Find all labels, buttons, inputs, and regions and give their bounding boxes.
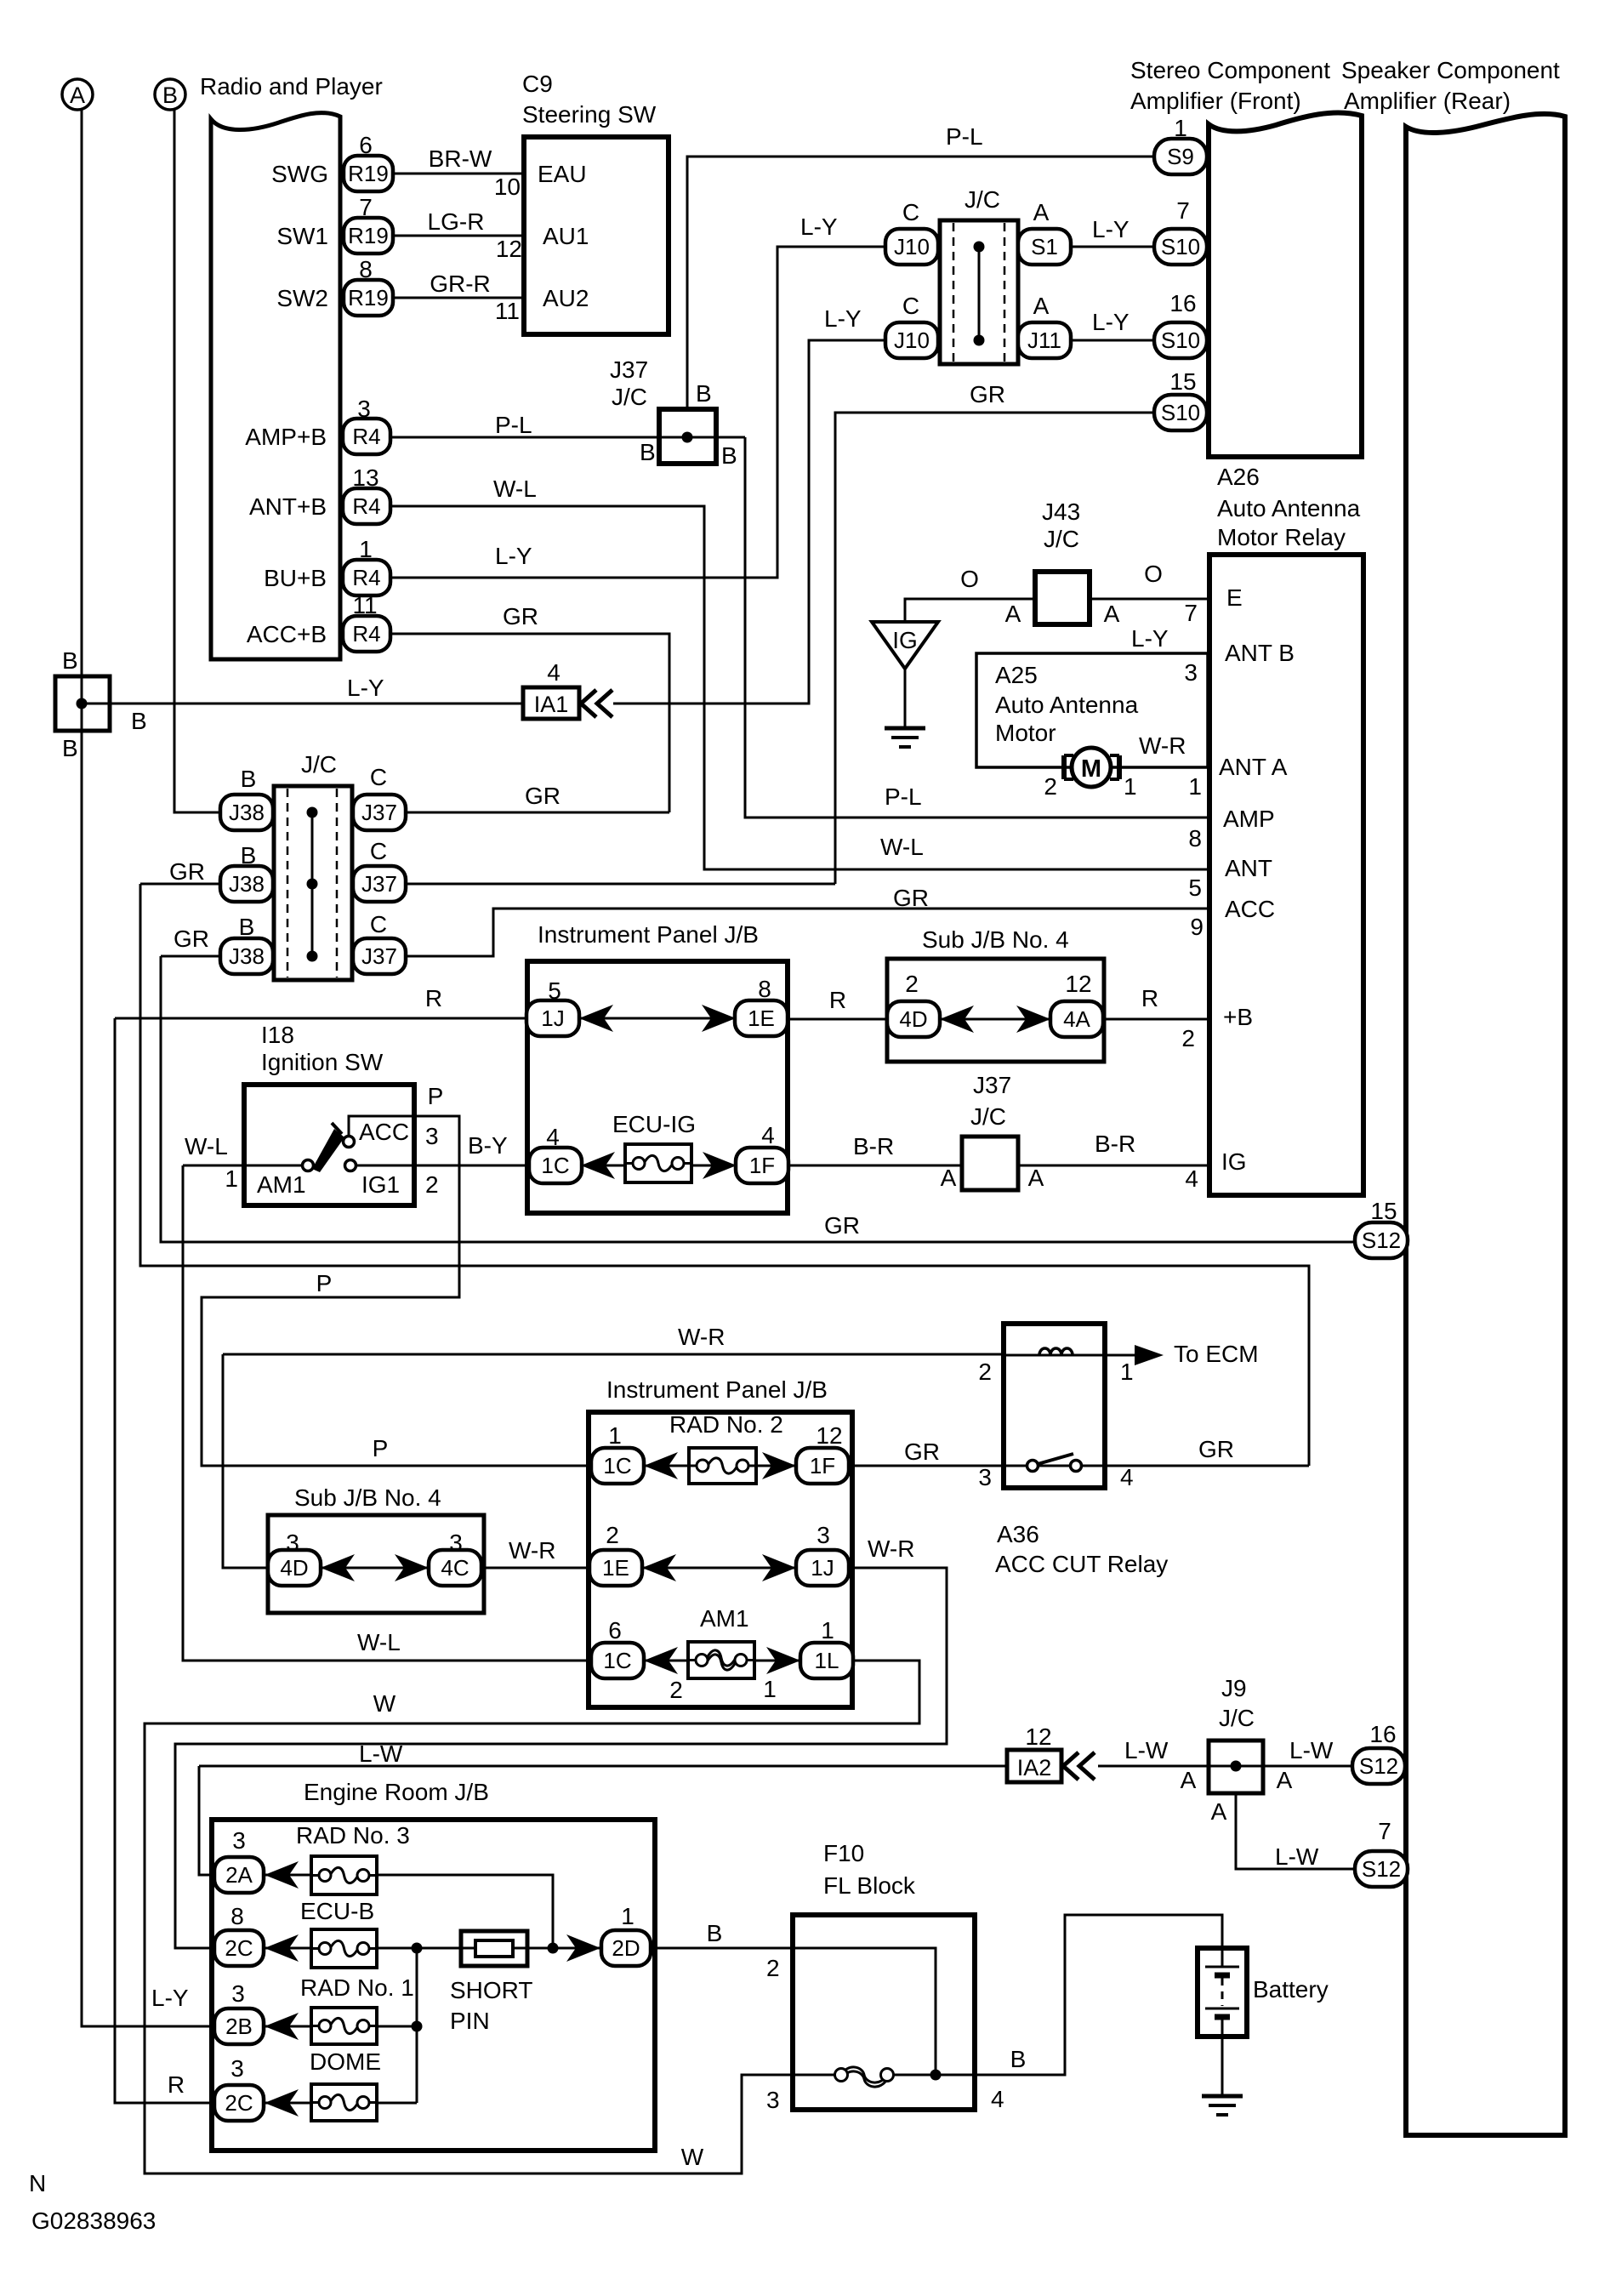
svg-text:A36: A36 bbox=[997, 1521, 1039, 1547]
svg-text:To ECM: To ECM bbox=[1174, 1341, 1259, 1367]
svg-text:Sub J/B No. 4: Sub J/B No. 4 bbox=[294, 1484, 441, 1511]
fuse RAD No. 1 bbox=[311, 2008, 377, 2044]
svg-text:1: 1 bbox=[763, 1676, 777, 1702]
connector terminal R4 pin 3 AMP+B bbox=[343, 419, 390, 454]
svg-text:B: B bbox=[239, 914, 255, 940]
wire W-L to AM1 contact bbox=[183, 1165, 303, 1167]
svg-text:GR: GR bbox=[970, 381, 1005, 407]
wire GR J38 row2 stub bbox=[140, 883, 220, 886]
svg-text:8: 8 bbox=[359, 256, 373, 282]
svg-text:6: 6 bbox=[359, 132, 373, 158]
wire B 2D to F10 internal bbox=[652, 1948, 936, 2075]
wire wire fuse junction vertical bbox=[416, 1948, 418, 2103]
svg-text:5: 5 bbox=[1188, 875, 1202, 901]
svg-text:E: E bbox=[1226, 584, 1243, 611]
wire L-W IA2 to J9 bbox=[1098, 1765, 1209, 1768]
wire W-R motor to A26 ANT A pin 1 bbox=[1119, 766, 1209, 769]
svg-text:A25: A25 bbox=[995, 662, 1038, 688]
svg-text:A: A bbox=[70, 83, 85, 108]
svg-text:RAD No. 3: RAD No. 3 bbox=[296, 1822, 410, 1849]
connector terminal S10 pin 7 bbox=[1154, 229, 1207, 265]
svg-text:S12: S12 bbox=[1362, 1856, 1401, 1882]
svg-text:GR-R: GR-R bbox=[430, 271, 491, 297]
wire wire inside Sub J/B lower bbox=[322, 1567, 428, 1570]
svg-text:ACC CUT Relay: ACC CUT Relay bbox=[995, 1551, 1168, 1577]
svg-text:8: 8 bbox=[230, 1903, 244, 1929]
svg-text:ACC+B: ACC+B bbox=[247, 621, 327, 647]
svg-text:L-W: L-W bbox=[1289, 1737, 1334, 1763]
svg-text:2: 2 bbox=[425, 1171, 439, 1198]
svg-text:Instrument Panel J/B: Instrument Panel J/B bbox=[606, 1376, 828, 1403]
wire L-W J9 to S12 pin 7 bbox=[1236, 1793, 1355, 1869]
connector terminal 2C pin 8 bbox=[214, 1930, 264, 1966]
svg-text:4A: 4A bbox=[1063, 1006, 1090, 1032]
connector terminal 1E pin 2 bbox=[589, 1550, 642, 1586]
svg-text:R4: R4 bbox=[352, 621, 380, 647]
svg-text:AM1: AM1 bbox=[257, 1171, 306, 1198]
connector terminal 4D pin 3 bbox=[268, 1550, 321, 1586]
svg-text:1: 1 bbox=[821, 1617, 834, 1644]
svg-text:GR: GR bbox=[169, 858, 205, 885]
arrow into 2D bbox=[566, 1934, 600, 1962]
fuse AM1 bbox=[688, 1642, 754, 1678]
component box Engine Room J/B bbox=[212, 1820, 655, 2151]
svg-text:Sub J/B No. 4: Sub J/B No. 4 bbox=[922, 926, 1069, 953]
arrow into 1C ECU-IG bbox=[581, 1152, 615, 1179]
wire L-Y A25 to A26 ANT B pin 3 bbox=[1195, 652, 1209, 655]
component box A26 Auto Antenna Motor Relay bbox=[1209, 555, 1363, 1195]
svg-text:J/C: J/C bbox=[612, 384, 647, 410]
wire W-R 4C to 1E bbox=[481, 1567, 589, 1570]
wire B F10 pin 4 to battery bbox=[893, 1915, 1222, 2075]
connector terminal J38 row3 bbox=[220, 938, 273, 974]
arrow into 4A bbox=[1016, 1006, 1050, 1033]
svg-text:7: 7 bbox=[359, 194, 373, 220]
svg-text:ACC: ACC bbox=[359, 1119, 409, 1145]
switch contact IG1 bbox=[345, 1160, 356, 1171]
svg-text:1E: 1E bbox=[602, 1555, 629, 1581]
junction dot ECU-B row bbox=[412, 1943, 423, 1954]
junction dot RAD No.1 row bbox=[412, 2021, 423, 2032]
wire R 1E to 4D bbox=[788, 1018, 887, 1021]
connector terminal S9 pin 1 bbox=[1154, 139, 1207, 174]
svg-text:A: A bbox=[1181, 1767, 1197, 1793]
connector circle A bbox=[62, 79, 93, 110]
svg-text:Engine Room J/B: Engine Room J/B bbox=[304, 1779, 489, 1805]
component box F10 FL Block bbox=[793, 1915, 975, 2110]
svg-text:J/C: J/C bbox=[970, 1103, 1006, 1130]
arrow into 1C AM1 bbox=[644, 1647, 678, 1674]
connector terminal J37 row3 bbox=[353, 938, 406, 974]
svg-text:5: 5 bbox=[548, 977, 561, 1004]
svg-text:SWG: SWG bbox=[271, 161, 328, 187]
svg-text:O: O bbox=[1144, 561, 1163, 587]
wire wire A36 pin 1 to ECM arrow bbox=[1105, 1354, 1160, 1357]
arrow into 1F RAD2 bbox=[762, 1452, 796, 1479]
svg-text:GR: GR bbox=[1198, 1436, 1234, 1462]
wire L-Y IA1 to J10 lower bbox=[613, 340, 886, 704]
component box A36 ACC CUT Relay bbox=[1004, 1324, 1105, 1488]
wire GR J38 row3 stub bbox=[161, 955, 220, 958]
svg-text:3: 3 bbox=[817, 1522, 830, 1548]
svg-text:W: W bbox=[681, 2144, 704, 2170]
svg-text:O: O bbox=[960, 566, 979, 592]
svg-text:Stereo Component: Stereo Component bbox=[1130, 57, 1330, 83]
wire GR to S12 pin 15 bbox=[161, 956, 1355, 1242]
svg-text:4: 4 bbox=[761, 1122, 775, 1148]
svg-text:B: B bbox=[241, 766, 257, 792]
connector terminal 2C pin 3 bbox=[214, 2085, 264, 2121]
wire wire 2A to RAD No.3 fuse bbox=[265, 1874, 311, 1877]
connector terminal J11 bbox=[1018, 322, 1071, 358]
connector terminal 2B pin 3 bbox=[214, 2008, 264, 2044]
connector terminal J37 row2 bbox=[353, 866, 406, 902]
connector circle B bbox=[155, 79, 185, 110]
svg-text:Instrument Panel J/B: Instrument Panel J/B bbox=[538, 921, 759, 948]
arrow into 4D bbox=[940, 1006, 974, 1033]
connector terminal 1C pin 6 bbox=[591, 1643, 644, 1678]
svg-text:1: 1 bbox=[225, 1165, 238, 1192]
connector terminal J38 row2 bbox=[220, 866, 273, 902]
svg-text:R19: R19 bbox=[348, 161, 389, 186]
connector terminal S10 pin 15 bbox=[1154, 395, 1207, 430]
junction block J/C (J10/S1/J11) bbox=[940, 220, 1018, 364]
connector terminal 1C pin 4 bbox=[529, 1148, 582, 1183]
svg-text:2C: 2C bbox=[225, 2090, 253, 2116]
connector terminal 4A pin 12 bbox=[1050, 1001, 1103, 1037]
svg-text:Ignition SW: Ignition SW bbox=[261, 1049, 384, 1075]
arrow into 2A bbox=[265, 1861, 299, 1889]
svg-text:S10: S10 bbox=[1161, 400, 1200, 425]
junction connector J37 J/C mid bbox=[962, 1137, 1018, 1190]
svg-text:4: 4 bbox=[547, 659, 561, 686]
svg-text:1: 1 bbox=[359, 536, 373, 562]
svg-text:W-L: W-L bbox=[880, 834, 924, 860]
junction dot short pin row bbox=[548, 1943, 559, 1954]
wire GR 1F to A36 pin 3 bbox=[849, 1465, 1004, 1467]
svg-text:G02838963: G02838963 bbox=[31, 2208, 156, 2234]
connector terminal 1F pin 4 bbox=[736, 1148, 788, 1183]
svg-text:12: 12 bbox=[816, 1422, 842, 1449]
svg-text:ANT: ANT bbox=[1225, 855, 1272, 881]
svg-text:R4: R4 bbox=[352, 493, 380, 519]
svg-text:3: 3 bbox=[230, 2055, 244, 2082]
svg-text:1J: 1J bbox=[541, 1006, 564, 1031]
svg-text:B: B bbox=[640, 439, 656, 465]
wire L-Y B junction to IA1 bbox=[82, 703, 523, 705]
wire P-L J37 to S9 bbox=[687, 157, 1155, 409]
wire LG-R SW1 to AU1 bbox=[392, 235, 524, 237]
connector terminal R19 pin 8 SW2 bbox=[344, 280, 393, 316]
component box Radio and Player bbox=[211, 113, 340, 659]
wire wire 2C to DOME fuse bbox=[265, 2102, 311, 2105]
connector terminal 1E pin 8 bbox=[735, 1000, 788, 1036]
svg-text:W: W bbox=[373, 1690, 396, 1717]
svg-text:Auto Antenna: Auto Antenna bbox=[1217, 495, 1361, 521]
wire GR A36 pin 4 stub bbox=[1105, 1465, 1309, 1467]
svg-text:J/C: J/C bbox=[1219, 1705, 1255, 1731]
connector IA2 bbox=[1007, 1750, 1061, 1782]
svg-text:A26: A26 bbox=[1217, 464, 1260, 490]
svg-text:4D: 4D bbox=[899, 1006, 927, 1032]
svg-text:J38: J38 bbox=[229, 871, 265, 897]
svg-text:PIN: PIN bbox=[450, 2008, 490, 2034]
svg-text:11: 11 bbox=[495, 298, 520, 324]
svg-text:J10: J10 bbox=[894, 328, 930, 353]
svg-text:1E: 1E bbox=[748, 1006, 775, 1031]
battery box bbox=[1198, 1948, 1247, 2037]
svg-text:S9: S9 bbox=[1167, 144, 1194, 169]
connector terminal 2A pin 3 bbox=[214, 1857, 264, 1893]
wire B-R 1F to J37 J/C bbox=[788, 1165, 962, 1167]
svg-text:A: A bbox=[1005, 601, 1021, 627]
svg-text:7: 7 bbox=[1176, 197, 1190, 224]
svg-text:A: A bbox=[1033, 293, 1050, 319]
wire L-Y S1 to S10 pin 7 bbox=[1071, 246, 1154, 248]
svg-text:L-Y: L-Y bbox=[495, 543, 532, 569]
svg-text:GR: GR bbox=[824, 1212, 860, 1239]
svg-text:16: 16 bbox=[1369, 1721, 1396, 1747]
svg-text:1: 1 bbox=[608, 1422, 622, 1449]
wire L-Y BU+B to J10 bbox=[390, 247, 886, 578]
wire wire RAD No.1 fuse out bbox=[377, 2025, 417, 2028]
connector terminal S1 bbox=[1018, 229, 1071, 265]
battery symbol bbox=[1205, 1948, 1239, 2037]
wire W-L ANT+B to A26 ANT pin 5 bbox=[390, 506, 1209, 869]
svg-text:P-L: P-L bbox=[946, 123, 983, 150]
connector terminal R4 pin 1 BU+B bbox=[343, 560, 390, 595]
junction connector J43 J/C bbox=[1035, 572, 1090, 624]
svg-text:A: A bbox=[941, 1165, 957, 1191]
svg-text:11: 11 bbox=[352, 592, 377, 618]
svg-text:SW2: SW2 bbox=[276, 285, 328, 311]
svg-text:3: 3 bbox=[357, 396, 371, 422]
connector IA1 bbox=[523, 687, 579, 719]
svg-text:C: C bbox=[902, 199, 919, 225]
svg-text:2A: 2A bbox=[225, 1862, 253, 1888]
ground below IG bbox=[885, 669, 925, 747]
svg-text:W-L: W-L bbox=[185, 1133, 228, 1159]
svg-text:B: B bbox=[241, 842, 257, 869]
svg-text:B: B bbox=[131, 708, 147, 734]
svg-text:3: 3 bbox=[449, 1530, 463, 1556]
svg-text:1: 1 bbox=[1124, 773, 1137, 800]
junction connector J9 J/C bbox=[1209, 1741, 1263, 1793]
arrow into 2C ECU-B bbox=[265, 1934, 299, 1962]
svg-text:BR-W: BR-W bbox=[429, 145, 492, 172]
arrow into 1C RAD2 bbox=[644, 1452, 678, 1479]
svg-text:L-W: L-W bbox=[1275, 1843, 1319, 1870]
motor M A25 bbox=[1064, 748, 1119, 787]
svg-text:J37: J37 bbox=[361, 943, 397, 969]
arrow into 1J bbox=[762, 1554, 796, 1581]
svg-text:1J: 1J bbox=[811, 1555, 834, 1581]
svg-text:B-R: B-R bbox=[853, 1133, 894, 1159]
svg-text:L-Y: L-Y bbox=[1092, 309, 1130, 335]
svg-text:AU2: AU2 bbox=[543, 285, 589, 311]
svg-text:A: A bbox=[1104, 601, 1120, 627]
svg-text:SHORT: SHORT bbox=[450, 1977, 533, 2003]
svg-text:4C: 4C bbox=[441, 1555, 469, 1581]
svg-text:12: 12 bbox=[496, 236, 522, 262]
connector terminal 2D pin 1 bbox=[601, 1930, 651, 1966]
svg-text:IG: IG bbox=[892, 627, 918, 653]
svg-text:Motor Relay: Motor Relay bbox=[1217, 524, 1346, 550]
svg-text:P-L: P-L bbox=[495, 412, 532, 438]
connector terminal 1J pin 3 bbox=[796, 1550, 849, 1586]
wire wire inside ECU-IG row bbox=[581, 1165, 737, 1167]
wire wire DOME fuse out bbox=[377, 2102, 417, 2105]
connector terminal S10 pin 16 bbox=[1154, 322, 1207, 358]
svg-text:J38: J38 bbox=[229, 800, 265, 825]
svg-text:R: R bbox=[1141, 985, 1158, 1011]
svg-text:ECU-IG: ECU-IG bbox=[612, 1111, 696, 1137]
relay switch A36 bbox=[1027, 1454, 1082, 1472]
svg-text:B: B bbox=[62, 647, 78, 674]
svg-text:16: 16 bbox=[1169, 290, 1196, 316]
connector terminal 1F pin 12 bbox=[796, 1448, 849, 1484]
arrow into 1J bbox=[579, 1005, 613, 1032]
fuse RAD No. 3 bbox=[311, 1856, 377, 1894]
arrow into 2C DOME bbox=[265, 2089, 299, 2117]
fuse RAD No. 2 bbox=[689, 1448, 756, 1484]
component box Instrument Panel J/B lower bbox=[589, 1412, 852, 1707]
svg-text:2D: 2D bbox=[612, 1935, 640, 1961]
component box I18 Ignition SW bbox=[244, 1085, 414, 1205]
svg-text:C9: C9 bbox=[522, 71, 553, 97]
svg-text:IG1: IG1 bbox=[361, 1171, 400, 1198]
svg-text:2: 2 bbox=[1044, 773, 1057, 800]
svg-text:RAD No. 2: RAD No. 2 bbox=[669, 1411, 783, 1438]
component box Instrument Panel J/B upper bbox=[527, 961, 788, 1213]
svg-text:W-L: W-L bbox=[493, 476, 537, 502]
svg-text:ANT B: ANT B bbox=[1225, 640, 1295, 666]
wire W-L down to 1C pin 6 bbox=[183, 1165, 592, 1661]
wire wire inside RAD No.2 row bbox=[643, 1465, 798, 1467]
svg-text:J11: J11 bbox=[1027, 328, 1061, 353]
wire GR ACC+B down bbox=[390, 634, 669, 812]
svg-text:2C: 2C bbox=[225, 1935, 253, 1961]
connector terminal S12 pin 15 bbox=[1355, 1222, 1408, 1258]
svg-text:J10: J10 bbox=[894, 234, 930, 259]
svg-text:B: B bbox=[62, 735, 78, 761]
svg-text:4: 4 bbox=[1120, 1464, 1134, 1490]
connector terminal 1J pin 5 bbox=[526, 1000, 579, 1036]
junction block J/C (J38/J37) bbox=[274, 786, 352, 980]
connector terminal R19 pin 6 SWG bbox=[344, 156, 393, 191]
svg-text:N: N bbox=[29, 2170, 46, 2196]
svg-text:S12: S12 bbox=[1359, 1753, 1398, 1779]
svg-text:2: 2 bbox=[978, 1359, 992, 1385]
component box Speaker Component Amplifier (Rear) bbox=[1406, 114, 1565, 2135]
svg-text:B: B bbox=[721, 442, 737, 469]
svg-text:J38: J38 bbox=[229, 943, 265, 969]
wire W 1L to F10 pin 3 bbox=[145, 1661, 919, 2174]
svg-text:7: 7 bbox=[1378, 1818, 1391, 1844]
connector terminal R19 pin 7 SW1 bbox=[344, 218, 393, 254]
svg-text:J37: J37 bbox=[973, 1072, 1011, 1098]
svg-text:2: 2 bbox=[1181, 1025, 1195, 1051]
component box Sub J/B No.4 lower bbox=[268, 1515, 484, 1613]
svg-text:15: 15 bbox=[1169, 368, 1196, 395]
svg-text:IA2: IA2 bbox=[1017, 1755, 1052, 1780]
svg-text:12: 12 bbox=[1025, 1723, 1051, 1750]
connector SHORT PIN bbox=[461, 1931, 527, 1966]
svg-text:8: 8 bbox=[1188, 825, 1202, 852]
junction dot B splice bbox=[77, 698, 88, 709]
wire wire inside J/B row 1E-1J bbox=[641, 1567, 797, 1570]
component box Stereo Component Amplifier (Front) bbox=[1209, 112, 1362, 457]
wire wire F10 pin 3 to fusible link bbox=[793, 2074, 835, 2077]
svg-text:R19: R19 bbox=[348, 223, 389, 248]
svg-text:L-Y: L-Y bbox=[1131, 625, 1169, 652]
wire R to 1J pin 5 bbox=[115, 1017, 526, 1020]
wire R inside J/B row1 bbox=[579, 1017, 736, 1020]
wire wire inside AM1 row bbox=[643, 1660, 801, 1662]
arrow IA1 chevrons bbox=[581, 690, 596, 717]
wire L-Y J11 to S10 pin 16 bbox=[1071, 339, 1154, 342]
svg-text:9: 9 bbox=[1190, 914, 1204, 940]
fuse ECU-IG bbox=[625, 1144, 691, 1182]
svg-text:GR: GR bbox=[893, 885, 929, 911]
svg-text:12: 12 bbox=[1065, 971, 1091, 997]
svg-text:S12: S12 bbox=[1362, 1228, 1401, 1253]
svg-text:3: 3 bbox=[231, 1980, 245, 2007]
svg-text:P: P bbox=[316, 1270, 333, 1296]
junction dot F10 bbox=[930, 2070, 942, 2081]
svg-text:2: 2 bbox=[606, 1522, 619, 1548]
svg-text:I18: I18 bbox=[261, 1022, 294, 1048]
svg-text:3: 3 bbox=[232, 1827, 246, 1854]
svg-text:1: 1 bbox=[1188, 773, 1202, 800]
svg-text:GR: GR bbox=[503, 603, 538, 630]
svg-text:AM1: AM1 bbox=[700, 1605, 749, 1632]
svg-text:1C: 1C bbox=[603, 1453, 631, 1478]
svg-text:LG-R: LG-R bbox=[428, 208, 485, 235]
svg-text:F10: F10 bbox=[823, 1840, 864, 1866]
power symbol IG triangle bbox=[872, 622, 938, 669]
svg-text:1F: 1F bbox=[810, 1453, 835, 1478]
svg-text:R19: R19 bbox=[348, 285, 389, 311]
svg-text:C: C bbox=[370, 911, 387, 937]
arrow into 1L bbox=[766, 1647, 800, 1674]
arrow into 4D lower bbox=[321, 1554, 355, 1581]
svg-text:Radio and Player: Radio and Player bbox=[200, 73, 383, 100]
component box A25 Auto Antenna Motor bbox=[976, 653, 1208, 767]
junction dot J37 bbox=[682, 432, 693, 443]
connector terminal R4 pin 13 ANT+B bbox=[343, 488, 390, 524]
svg-text:W-R: W-R bbox=[509, 1537, 555, 1564]
wire wire battery to ground bbox=[1221, 2037, 1224, 2095]
svg-text:R: R bbox=[829, 987, 846, 1013]
switch lever AM1 bbox=[312, 1123, 344, 1172]
arrow into 1E bbox=[702, 1005, 736, 1032]
svg-text:R4: R4 bbox=[352, 424, 380, 449]
wire W-R down to 4D lower bbox=[223, 1354, 268, 1568]
svg-text:13: 13 bbox=[352, 464, 378, 491]
connector terminal 1C pin 1 bbox=[591, 1448, 644, 1484]
wire B-Y IG1 to 1C pin 4 bbox=[356, 1165, 530, 1167]
svg-text:10: 10 bbox=[494, 174, 521, 200]
svg-text:3: 3 bbox=[978, 1464, 992, 1490]
svg-text:4: 4 bbox=[546, 1124, 560, 1150]
connector terminal S12 pin 7 bbox=[1355, 1851, 1408, 1887]
svg-text:L-W: L-W bbox=[1124, 1737, 1169, 1763]
svg-text:Amplifier (Front): Amplifier (Front) bbox=[1130, 88, 1301, 114]
svg-text:GR: GR bbox=[904, 1439, 940, 1465]
arrow IA2 chevrons bbox=[1063, 1752, 1078, 1780]
svg-text:1L: 1L bbox=[815, 1648, 839, 1673]
